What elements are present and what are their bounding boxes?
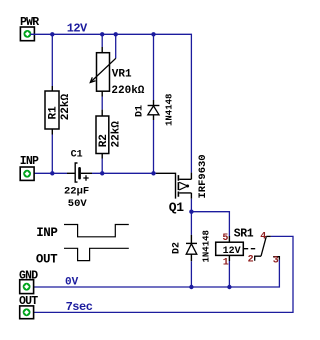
wire R1 bottom: [51, 135, 53, 174]
wire VR1 to R2: [101, 97, 103, 110]
wire 12V rail: [30, 34, 191, 172]
wire R1 top: [51, 34, 53, 86]
junction INP rail at D1/gate: [151, 171, 155, 175]
junction GND rail at D2: [189, 285, 193, 289]
svg-text:SR1: SR1: [234, 227, 254, 240]
svg-text:220kΩ: 220kΩ: [111, 85, 144, 97]
wire INP rail: [30, 172, 156, 174]
wire VR1 top: [101, 34, 103, 47]
wire R2 bottom: [101, 159, 103, 174]
resistor R1: [45, 86, 72, 135]
wire Q1 drain down: [190, 199, 192, 235]
svg-text:50V: 50V: [68, 198, 88, 210]
svg-text:OUT: OUT: [36, 253, 58, 267]
diode D2: [172, 230, 212, 262]
transistor Q1: [156, 154, 209, 215]
svg-text:1N4148: 1N4148: [202, 230, 212, 262]
wire D2 bottom: [190, 261, 192, 287]
svg-text:2: 2: [248, 254, 254, 265]
svg-text:5: 5: [222, 233, 228, 244]
relay SR1: [216, 227, 280, 268]
junction GND rail at coil: [227, 285, 231, 289]
svg-text:D2: D2: [172, 242, 183, 254]
junction INP rail at R2: [100, 171, 104, 175]
svg-text:D1: D1: [135, 105, 146, 117]
connector GND: [19, 270, 38, 294]
svg-text:Q1: Q1: [169, 200, 184, 215]
wire D1 bottom: [153, 120, 155, 173]
wire relay coil bottom: [228, 261, 230, 287]
svg-text:VR1: VR1: [112, 69, 132, 81]
svg-text:22kΩ: 22kΩ: [60, 93, 72, 120]
waveform diagram INP: [36, 225, 129, 241]
capacitor C1: [64, 150, 92, 211]
potentiometer VR1: [90, 47, 145, 97]
svg-text:R2: R2: [98, 134, 110, 147]
svg-text:0V: 0V: [65, 277, 79, 289]
svg-text:C1: C1: [71, 150, 83, 161]
svg-text:12V: 12V: [223, 246, 241, 257]
connector INP: [20, 155, 39, 180]
svg-text:INP: INP: [36, 226, 57, 240]
svg-text:R1: R1: [47, 106, 59, 120]
junction on 12V rail at VR1 wiper: [114, 32, 118, 36]
wire VR1 wiper: [115, 34, 117, 58]
junction on 12V rail at D1: [151, 32, 155, 36]
svg-text:22kΩ: 22kΩ: [111, 121, 123, 148]
svg-text:4: 4: [260, 232, 266, 243]
resistor R2: [96, 110, 123, 159]
junction on 12V rail at R1: [50, 32, 54, 36]
svg-text:INP: INP: [20, 155, 39, 168]
svg-text:IRF9630: IRF9630: [197, 154, 209, 198]
svg-text:22µF: 22µF: [64, 186, 89, 198]
junction Q1 drain node: [189, 210, 193, 214]
diode D1: [135, 94, 175, 126]
svg-text:3: 3: [273, 255, 279, 266]
connector PWR: [20, 16, 39, 41]
waveform diagram OUT: [36, 248, 129, 266]
svg-text:12V: 12V: [67, 21, 88, 35]
svg-text:1: 1: [223, 257, 229, 268]
svg-text:7sec: 7sec: [66, 300, 93, 314]
wire GND rail: [30, 260, 279, 287]
junction INP rail at R1: [50, 171, 54, 175]
wire D1 top: [153, 34, 155, 100]
svg-text:1N4148: 1N4148: [165, 94, 175, 126]
connector OUT: [19, 295, 38, 318]
wire pin4 to OUT: [30, 236, 293, 312]
wire drain to relay coil: [191, 212, 229, 236]
junction on 12V rail at VR1: [100, 32, 104, 36]
